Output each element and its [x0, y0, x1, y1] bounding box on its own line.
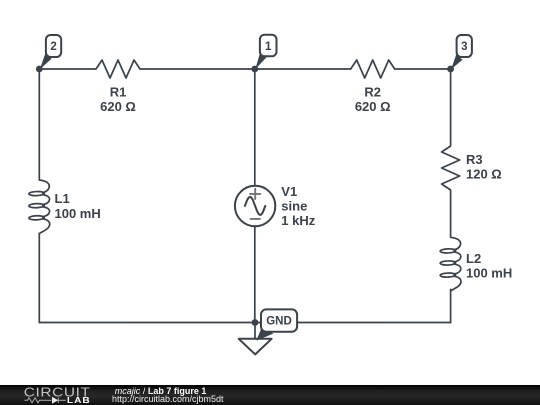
svg-text:1: 1: [265, 41, 272, 53]
svg-text:1 kHz: 1 kHz: [281, 213, 315, 228]
svg-text:2: 2: [50, 41, 56, 53]
svg-text:sine: sine: [281, 199, 307, 214]
svg-text:LAB: LAB: [67, 395, 91, 405]
svg-text:620 Ω: 620 Ω: [355, 99, 391, 114]
svg-text:620 Ω: 620 Ω: [100, 99, 136, 114]
svg-text:GND: GND: [266, 316, 292, 328]
svg-text:R3: R3: [466, 152, 483, 167]
svg-text:L2: L2: [466, 251, 481, 266]
svg-text:V1: V1: [281, 184, 297, 199]
svg-text:3: 3: [461, 41, 467, 53]
svg-text:R1: R1: [110, 85, 127, 100]
svg-text:L1: L1: [55, 191, 70, 206]
svg-text:100 mH: 100 mH: [466, 265, 512, 280]
svg-text:120 Ω: 120 Ω: [466, 167, 502, 182]
svg-text:100 mH: 100 mH: [55, 206, 101, 221]
svg-text:R2: R2: [364, 85, 381, 100]
